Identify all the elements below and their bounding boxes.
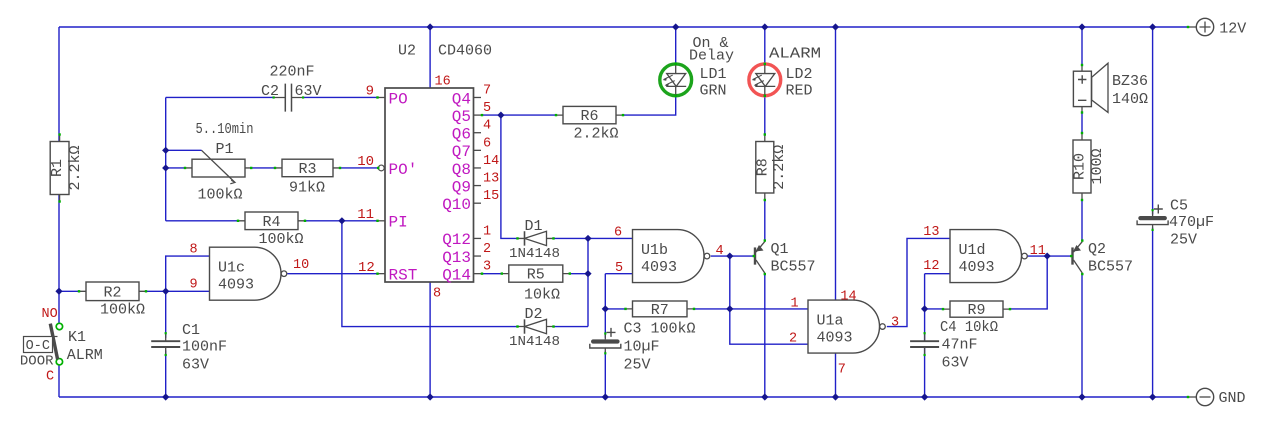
svg-text:470µF: 470µF xyxy=(1169,214,1214,231)
wire Q14 to R5 xyxy=(481,273,502,275)
wire Q1 collector to GND xyxy=(764,273,766,397)
capacitor C1 xyxy=(151,322,227,374)
svg-text:220nF: 220nF xyxy=(269,64,314,81)
wire Q5 to R6 xyxy=(481,114,556,116)
wire U2 pin8 to GND xyxy=(429,282,431,397)
svg-text:DOOR: DOOR xyxy=(20,354,54,370)
svg-text:4093: 4093 xyxy=(817,330,853,347)
junction D1/U1b pin6 xyxy=(584,235,591,242)
svg-text:Q5: Q5 xyxy=(452,108,471,126)
svg-text:U1b: U1b xyxy=(641,242,668,259)
capacitor C2 xyxy=(261,64,322,112)
svg-text:2.2kΩ: 2.2kΩ xyxy=(67,145,84,190)
junction U1d out/Q2 base xyxy=(1044,252,1051,259)
svg-text:25V: 25V xyxy=(624,357,651,374)
svg-text:U2: U2 xyxy=(398,43,416,60)
wire node A to switch NO xyxy=(58,291,60,323)
wire D1 node to D2 node vertical xyxy=(587,238,589,326)
svg-text:Q6: Q6 xyxy=(452,126,471,144)
svg-text:25V: 25V xyxy=(1170,232,1197,249)
svg-text:3: 3 xyxy=(483,260,491,275)
svg-text:R10: R10 xyxy=(1072,153,1089,180)
wire +12V top rail xyxy=(59,26,1188,28)
svg-text:9: 9 xyxy=(366,84,374,100)
svg-text:16: 16 xyxy=(435,75,451,90)
U2 pin names xyxy=(389,90,472,284)
junction LD1/+12V xyxy=(672,23,679,30)
wire +12V to C5 xyxy=(1152,27,1154,215)
junction Q2/GND xyxy=(1078,393,1085,400)
svg-text:CD4060: CD4060 xyxy=(438,43,492,60)
svg-text:C: C xyxy=(46,370,54,385)
svg-text:47nF: 47nF xyxy=(942,337,978,354)
junction LD2/+12V xyxy=(761,23,768,30)
wire R1 to node A xyxy=(58,195,60,292)
wire Q5 node down to D1 cathode xyxy=(501,115,518,238)
wire to R4 xyxy=(166,220,238,222)
svg-text:C3 100kΩ: C3 100kΩ xyxy=(624,321,696,338)
junction C5/GND xyxy=(1149,393,1156,400)
potentiometer P1 xyxy=(184,141,253,204)
wire +12V to LD1 xyxy=(675,27,677,64)
svg-text:63V: 63V xyxy=(295,83,322,100)
wire R10 to Q2 emitter xyxy=(1081,200,1083,241)
svg-text:K1: K1 xyxy=(68,329,86,346)
svg-text:4093: 4093 xyxy=(218,277,254,294)
wire node to R9 xyxy=(925,308,943,310)
wire node A to R2 xyxy=(59,290,79,292)
svg-text:R5: R5 xyxy=(527,267,545,284)
resistor R2 xyxy=(78,282,147,319)
svg-text:R8: R8 xyxy=(754,158,771,176)
svg-text:Q8: Q8 xyxy=(452,161,471,179)
wire U1a out to U1d pin13 xyxy=(887,238,950,326)
wire BZ36 to R10 xyxy=(1081,113,1083,133)
capacitor C3 xyxy=(590,321,696,374)
junction PI/D2 xyxy=(338,217,345,224)
LD1 labels xyxy=(689,35,734,100)
svg-text:Q7: Q7 xyxy=(452,143,471,161)
wire Q2 collector to GND xyxy=(1081,273,1083,397)
svg-text:R2: R2 xyxy=(103,284,121,301)
svg-text:O-C: O-C xyxy=(26,339,50,354)
wire R7 to U1a pin1 xyxy=(694,308,808,310)
junction U1a pwr/GND xyxy=(832,393,839,400)
wire node to P1 wiper xyxy=(166,149,202,151)
svg-text:P1: P1 xyxy=(215,141,233,158)
wire C2 to U2 pin9 PO xyxy=(303,96,378,98)
svg-text:4: 4 xyxy=(716,244,724,259)
wire to U1b pin5 xyxy=(605,273,632,275)
wire R5 to node xyxy=(571,273,589,275)
svg-text:C1: C1 xyxy=(182,322,200,339)
resistor R7 xyxy=(624,301,695,319)
svg-text:11: 11 xyxy=(357,207,374,223)
wire U1c out to U2 pin12 RST xyxy=(287,273,377,275)
terminal GND xyxy=(1187,388,1246,407)
svg-text:BZ36: BZ36 xyxy=(1112,73,1148,90)
svg-text:Q9: Q9 xyxy=(452,178,471,196)
wire node B to C1 xyxy=(165,291,167,338)
junction R9/C4 xyxy=(921,305,928,312)
svg-text:100kΩ: 100kΩ xyxy=(259,231,304,248)
junction pin16/+12V xyxy=(427,23,434,30)
wire left branch vertical xyxy=(165,97,167,220)
svg-text:Q4: Q4 xyxy=(452,90,471,108)
IC U2 CD4060 xyxy=(385,43,492,283)
svg-text:LD1: LD1 xyxy=(700,66,727,83)
svg-text:Q2: Q2 xyxy=(1088,241,1106,258)
svg-text:13: 13 xyxy=(923,225,939,240)
terminal +12V xyxy=(1187,18,1247,37)
svg-text:PI: PI xyxy=(389,214,408,232)
svg-text:3: 3 xyxy=(891,315,899,330)
wire U1b out to Q1 base xyxy=(711,255,754,257)
wire to C2 left xyxy=(166,96,275,98)
wire base node to U1a pin2 xyxy=(730,256,808,344)
svg-text:NO: NO xyxy=(42,307,58,322)
svg-text:ALARM: ALARM xyxy=(769,46,821,63)
wire R4 to U2 pin11 PI xyxy=(305,220,378,222)
wire pin12 down to R9 node xyxy=(924,274,926,309)
wire R2 to node B xyxy=(146,290,166,292)
svg-text:R9: R9 xyxy=(967,302,985,319)
wire C1 to GND xyxy=(165,350,167,397)
svg-text:1N4148: 1N4148 xyxy=(509,246,560,262)
wire +12V to R1 xyxy=(58,27,60,142)
wire U1a pin7 to GND xyxy=(835,353,837,397)
svg-text:4: 4 xyxy=(483,119,491,134)
U2 pin stubs right xyxy=(474,97,484,274)
svg-text:100nF: 100nF xyxy=(182,339,227,356)
buzzer BZ36 xyxy=(1073,63,1148,114)
svg-text:ALRM: ALRM xyxy=(67,347,103,364)
LED LD1 xyxy=(660,63,692,97)
svg-text:Q13: Q13 xyxy=(442,249,471,267)
svg-text:6: 6 xyxy=(614,226,622,241)
svg-text:U1d: U1d xyxy=(959,242,986,259)
U2 pin stubs left xyxy=(376,96,385,275)
junction R5/D2 xyxy=(584,270,591,277)
svg-text:D1: D1 xyxy=(525,218,543,235)
svg-text:R7: R7 xyxy=(651,302,669,319)
svg-text:11: 11 xyxy=(1030,244,1046,259)
transistor Q1 xyxy=(753,239,816,275)
wire C5 to GND xyxy=(1152,228,1154,398)
wire GND bottom rail xyxy=(59,396,1188,398)
junction C5/+12V xyxy=(1149,23,1156,30)
svg-text:RST: RST xyxy=(389,266,418,284)
wire to U1d pin12 xyxy=(925,273,950,275)
svg-text:5..10min: 5..10min xyxy=(196,121,254,138)
svg-text:Q14: Q14 xyxy=(442,266,471,284)
junction C3/GND xyxy=(602,393,609,400)
svg-text:PO': PO' xyxy=(389,161,418,179)
svg-text:5: 5 xyxy=(483,101,491,116)
svg-text:2: 2 xyxy=(483,242,491,257)
wire R3 to U2 pin10 PO' xyxy=(340,167,377,169)
svg-text:2: 2 xyxy=(789,331,797,346)
svg-text:91kΩ: 91kΩ xyxy=(289,180,325,197)
svg-text:R3: R3 xyxy=(298,161,316,178)
svg-text:1N4148: 1N4148 xyxy=(509,334,560,350)
junction C3/R7 xyxy=(602,305,609,312)
wire D2 anode to node xyxy=(554,326,589,328)
wire P1 to R3 xyxy=(252,167,275,169)
svg-text:Delay: Delay xyxy=(689,48,734,65)
svg-text:6: 6 xyxy=(483,136,491,151)
resistor R4 xyxy=(237,212,306,248)
svg-text:U1c: U1c xyxy=(218,260,245,277)
svg-text:8: 8 xyxy=(190,243,198,258)
svg-text:10: 10 xyxy=(357,154,374,170)
wire D1 anode to U1b pin6 xyxy=(554,237,633,239)
wire LD2 to R8 xyxy=(764,96,766,134)
junction U2 pin8/GND xyxy=(427,393,434,400)
junction Q5 xyxy=(497,111,504,118)
wire node to R7 xyxy=(605,308,625,310)
U2 pin numbers xyxy=(357,75,499,302)
svg-text:14: 14 xyxy=(483,154,499,169)
svg-text:1: 1 xyxy=(483,224,491,239)
wire node B to U1c pin9 xyxy=(166,290,210,292)
wire +12V to LD2 xyxy=(764,27,766,64)
op-amp-style NAND gate U1b xyxy=(633,230,710,283)
resistor R10 xyxy=(1072,132,1107,201)
svg-text:12: 12 xyxy=(358,260,375,276)
svg-text:C2: C2 xyxy=(261,83,279,100)
svg-text:140Ω: 140Ω xyxy=(1112,91,1148,108)
svg-text:100Ω: 100Ω xyxy=(1089,148,1106,184)
wire PI node to D2 cathode xyxy=(342,221,518,327)
junction node B xyxy=(162,288,169,295)
svg-text:12: 12 xyxy=(923,259,939,274)
svg-text:7: 7 xyxy=(483,83,491,98)
svg-text:4093: 4093 xyxy=(959,259,995,276)
svg-text:BC557: BC557 xyxy=(771,259,816,276)
svg-text:14: 14 xyxy=(840,290,856,305)
transistor Q2 xyxy=(1070,239,1133,275)
svg-text:Q10: Q10 xyxy=(442,196,471,214)
svg-text:100kΩ: 100kΩ xyxy=(100,302,145,319)
svg-text:12V: 12V xyxy=(1219,21,1246,38)
svg-text:5: 5 xyxy=(615,261,623,276)
wire C3 to GND xyxy=(604,351,606,397)
svg-text:2.2kΩ: 2.2kΩ xyxy=(574,126,619,143)
resistor R1 xyxy=(49,133,84,202)
LED LD2 xyxy=(749,63,781,97)
resistor R3 xyxy=(274,159,341,196)
resistor R6 xyxy=(555,106,624,142)
wire R8 to Q1 emitter xyxy=(764,200,766,241)
svg-text:D2: D2 xyxy=(525,306,543,323)
junction C4/GND xyxy=(921,393,928,400)
wire node B to U1c pin8 xyxy=(166,256,210,291)
gate pin numbers xyxy=(190,225,1046,378)
op-amp-style NAND gate U1d xyxy=(950,230,1027,283)
svg-text:BC557: BC557 xyxy=(1088,259,1133,276)
wire +12V to U1a pin14 xyxy=(835,27,837,300)
switch K1 xyxy=(20,307,103,385)
svg-text:13: 13 xyxy=(483,172,499,187)
junction R7/U1a xyxy=(726,305,733,312)
junction Q1/GND xyxy=(761,393,768,400)
wire node to P1 left xyxy=(166,167,185,169)
svg-text:100kΩ: 100kΩ xyxy=(198,187,243,204)
wire R6 to LD1 cathode xyxy=(623,96,676,115)
svg-text:63V: 63V xyxy=(942,355,969,372)
diode D1 xyxy=(509,218,560,262)
svg-text:Q12: Q12 xyxy=(442,231,471,249)
junction node A xyxy=(55,288,62,295)
diode D2 xyxy=(509,306,560,350)
svg-text:LD2: LD2 xyxy=(786,66,813,83)
wire pin5 node down to C3 xyxy=(604,274,606,338)
svg-text:RED: RED xyxy=(786,83,813,100)
svg-text:15: 15 xyxy=(483,189,499,204)
wire +12V to BZ36 xyxy=(1081,27,1083,65)
svg-text:GRN: GRN xyxy=(700,83,727,100)
wire U1d out to Q2 base xyxy=(1027,255,1072,257)
capacitor C5 xyxy=(1137,198,1214,249)
svg-text:U1a: U1a xyxy=(817,313,844,330)
wire switch C to GND xyxy=(58,365,60,397)
svg-text:PO: PO xyxy=(389,90,408,108)
svg-text:4093: 4093 xyxy=(641,259,677,276)
op-amp-style NAND gate U1a xyxy=(808,300,885,353)
wire C4 to GND xyxy=(924,347,926,397)
svg-text:10µF: 10µF xyxy=(624,339,660,356)
junction C1/GND xyxy=(162,393,169,400)
LD2 labels xyxy=(769,46,821,100)
svg-text:9: 9 xyxy=(190,277,198,292)
svg-text:63V: 63V xyxy=(182,357,209,374)
svg-text:Q1: Q1 xyxy=(771,241,789,258)
resistor R5 xyxy=(501,265,571,304)
svg-text:10: 10 xyxy=(293,258,309,273)
svg-text:R1: R1 xyxy=(49,159,66,177)
capacitor C4 xyxy=(910,319,998,372)
svg-text:8: 8 xyxy=(433,287,441,302)
wire +12V to U2 pin16 xyxy=(429,27,431,88)
junction P1 left xyxy=(162,164,169,171)
svg-text:1: 1 xyxy=(791,296,799,311)
op-amp-style NAND gate U1c xyxy=(210,247,287,300)
svg-text:2.2kΩ: 2.2kΩ xyxy=(771,145,788,190)
junction U1a pwr/+12V xyxy=(832,23,839,30)
svg-text:C5: C5 xyxy=(1170,198,1188,215)
junction BZ36/+12V xyxy=(1078,23,1085,30)
svg-text:7: 7 xyxy=(838,363,846,378)
svg-text:GND: GND xyxy=(1219,390,1246,407)
svg-text:10kΩ: 10kΩ xyxy=(524,287,560,304)
junction Q1 base xyxy=(726,252,733,259)
wire node down to C4 xyxy=(924,309,926,341)
resistor R9 xyxy=(942,301,1011,319)
wire R9 to U1d out node xyxy=(1010,256,1047,309)
junction P1 wiper xyxy=(162,147,169,154)
svg-text:R4: R4 xyxy=(262,214,280,231)
resistor R8 xyxy=(754,133,788,201)
svg-text:R6: R6 xyxy=(580,108,598,125)
svg-text:C4 10kΩ: C4 10kΩ xyxy=(940,319,998,336)
